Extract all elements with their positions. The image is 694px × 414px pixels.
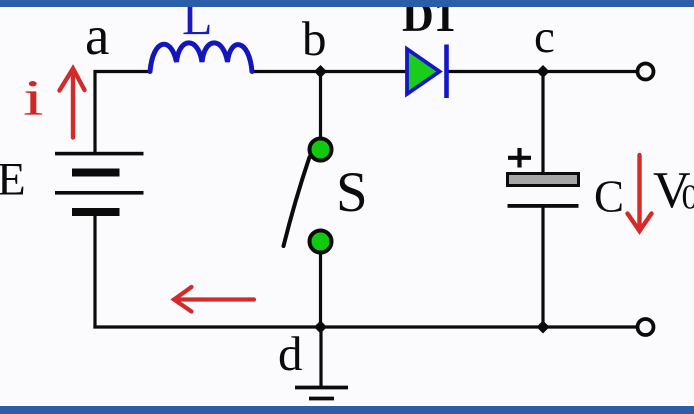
wire: capacitor to bottom rail [541, 206, 544, 327]
switch S: top contact [310, 139, 332, 161]
return current arrow (bottom, pointing left) [174, 287, 254, 312]
wire: left branch battery to bottom rail [93, 216, 96, 329]
wire: b to diode anode [321, 70, 407, 73]
node c [537, 65, 550, 78]
junction at capacitor bottom [537, 321, 550, 334]
svg-text:C: C [594, 172, 624, 222]
top banner bar [0, 0, 694, 7]
output voltage arrow V0 [628, 155, 652, 231]
svg-text:0: 0 [682, 179, 694, 217]
wire: top rail a to inductor [95, 72, 150, 153]
capacitor C top plate [508, 174, 579, 186]
capacitor C bottom plate [508, 204, 579, 208]
svg-text:E: E [0, 154, 26, 206]
wire: c down to capacitor [541, 72, 544, 176]
wire: diode cathode to right terminal [449, 70, 638, 73]
svg-text:S: S [336, 161, 368, 224]
bottom banner bar [0, 406, 694, 414]
svg-text:b: b [302, 11, 327, 66]
current arrow i [60, 69, 85, 138]
ground [295, 327, 348, 409]
svg-text:i: i [23, 69, 44, 126]
node d [314, 321, 327, 334]
capacitor C plus sign [508, 148, 531, 168]
diode cathode bar [444, 45, 449, 99]
terminal bottom right [638, 319, 654, 335]
diode D1 [407, 49, 440, 94]
svg-text:d: d [278, 326, 303, 381]
battery E [55, 152, 144, 216]
wire: inductor to b [252, 70, 321, 73]
svg-text:c: c [534, 11, 555, 63]
inductor L [150, 43, 252, 72]
svg-text:a: a [85, 5, 109, 66]
node b [314, 65, 327, 78]
switch blade [284, 157, 310, 246]
wire: b down to switch [319, 72, 322, 141]
wire: bottom rail [93, 325, 637, 328]
terminal top right [638, 64, 654, 80]
switch S: bottom contact [310, 231, 332, 253]
wire: switch bottom to d [319, 251, 322, 327]
